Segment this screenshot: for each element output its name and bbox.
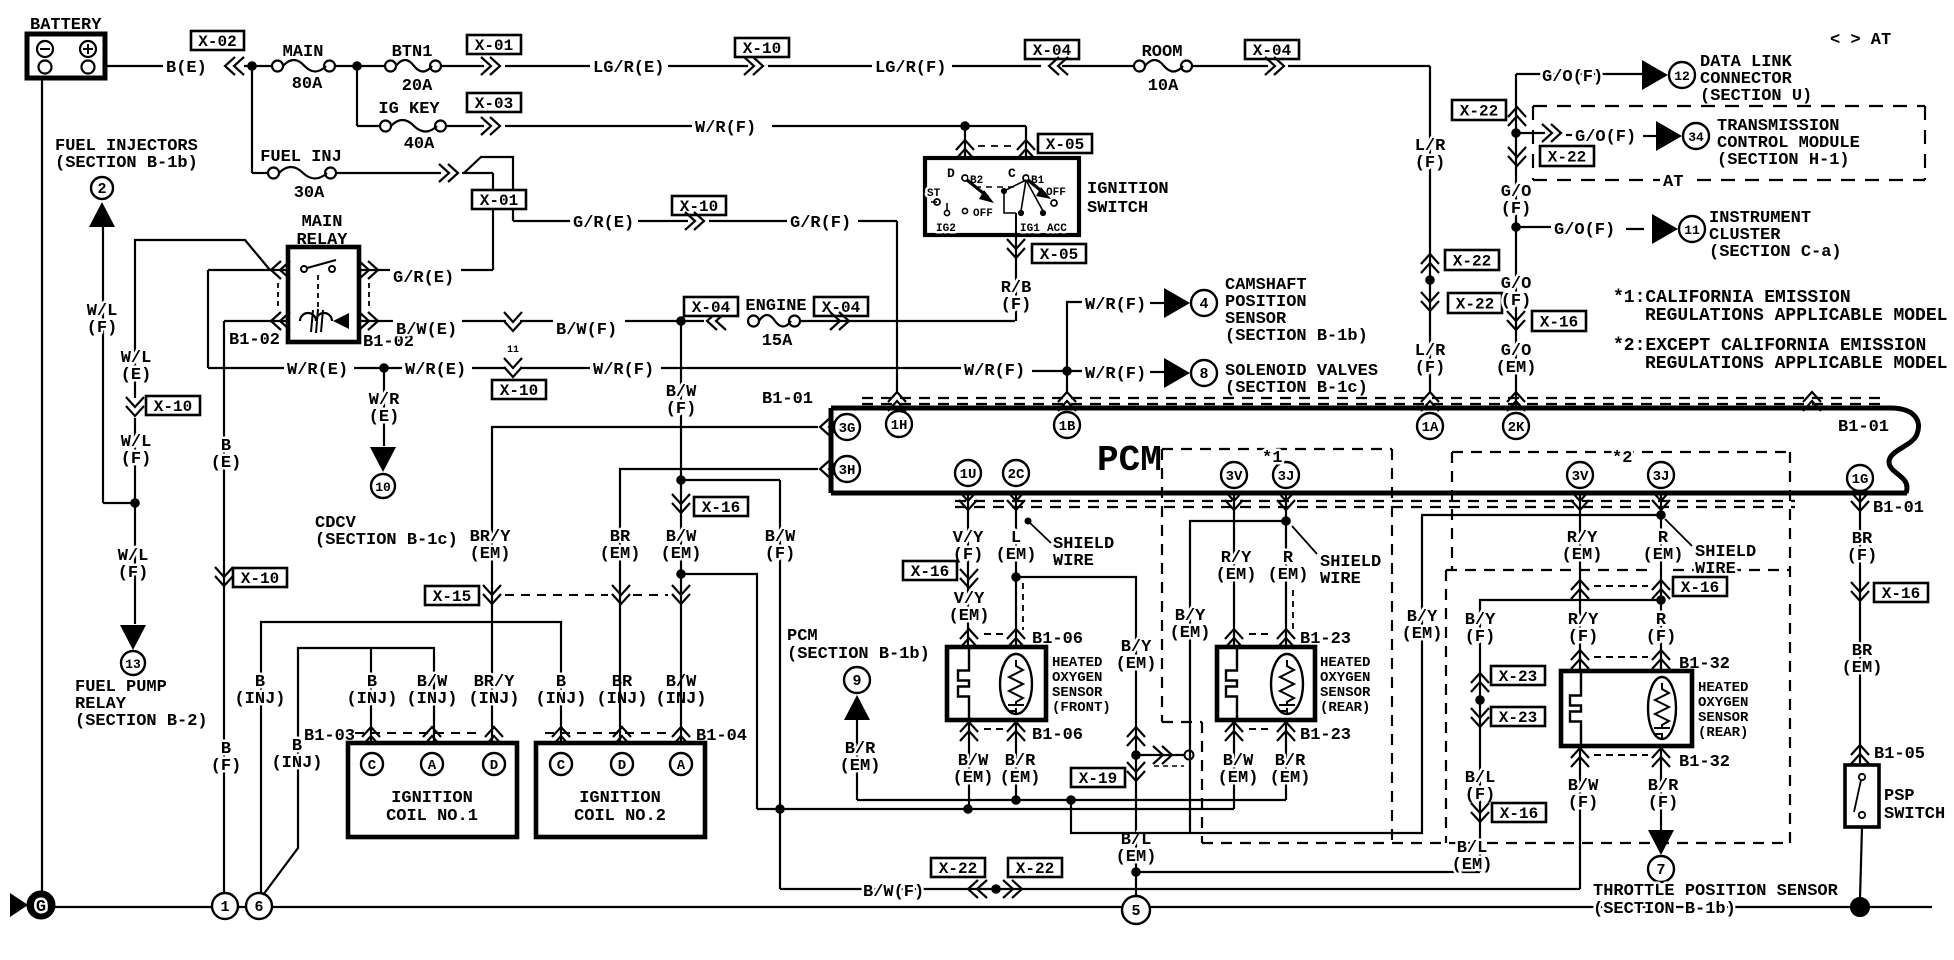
label IGNITION SWITCH — [1087, 180, 1169, 218]
arrow to 4 — [1164, 288, 1190, 318]
svg-text:MAIN: MAIN — [283, 43, 324, 62]
wire W/R(F) long — [661, 367, 961, 369]
wire W/L to relay — [135, 240, 270, 398]
label G/O (EM) — [1496, 342, 1537, 378]
label W/L (F) upper — [87, 302, 118, 338]
svg-text:(F): (F) — [1847, 547, 1878, 566]
svg-text:ENGINE: ENGINE — [745, 297, 806, 316]
svg-text:IGNITION: IGNITION — [1087, 180, 1169, 199]
svg-text:(E): (E) — [369, 408, 400, 427]
svg-text:(F): (F) — [1648, 794, 1679, 813]
svg-text:BTN1: BTN1 — [392, 43, 433, 62]
svg-text:X-10: X-10 — [154, 398, 192, 416]
b1-03 connector — [304, 727, 503, 746]
svg-text:B1-02: B1-02 — [229, 331, 280, 350]
svg-text:1H: 1H — [891, 418, 908, 434]
connector chevron X-04 left — [1049, 57, 1068, 75]
svg-text:SWITCH: SWITCH — [1087, 199, 1148, 218]
x-23 lower — [1471, 707, 1545, 727]
coil1 pin A — [421, 753, 443, 775]
label G/R(F) — [790, 214, 851, 233]
svg-text:G/R(F): G/R(F) — [790, 214, 851, 233]
wire B/W EM — [680, 321, 682, 750]
svg-text:(SECTION H-1): (SECTION H-1) — [1717, 151, 1850, 170]
connector 2C — [1003, 460, 1029, 486]
svg-text:REGULATIONS APPLICABLE MODEL: REGULATIONS APPLICABLE MODEL — [1645, 354, 1947, 374]
svg-text:COIL NO.2: COIL NO.2 — [574, 807, 666, 826]
svg-text:OXYGEN: OXYGEN — [1698, 695, 1748, 711]
chevron 3J a — [1277, 491, 1295, 510]
arrow to 34 — [1643, 121, 1682, 151]
svg-text:X-01: X-01 — [475, 37, 513, 55]
svg-text:(EM): (EM) — [949, 607, 990, 626]
label INSTRUMENT CLUSTER — [1709, 209, 1842, 262]
svg-text:X-22: X-22 — [1460, 103, 1498, 121]
wire junction down to ignition D — [964, 126, 966, 160]
label G/O(F) dlc — [1542, 68, 1603, 87]
svg-text:(EM): (EM) — [1270, 769, 1311, 788]
svg-text:(INJ): (INJ) — [271, 754, 322, 773]
svg-text:5: 5 — [1131, 903, 1140, 920]
label R (EM) b — [1643, 529, 1684, 565]
connector 3J a — [1273, 462, 1299, 488]
svg-text:X-10: X-10 — [743, 40, 781, 58]
svg-text:3J: 3J — [1278, 469, 1295, 485]
wire to ROOM fuse — [1062, 65, 1134, 67]
svg-text:9: 9 — [852, 673, 861, 690]
svg-text:(INJ): (INJ) — [468, 690, 519, 709]
ignition coil 2 box — [536, 743, 705, 837]
svg-text:C: C — [1008, 166, 1016, 181]
svg-text:ACC: ACC — [1047, 223, 1067, 235]
x-04 box left — [1025, 40, 1079, 60]
node 11 cluster — [1679, 216, 1705, 242]
label L/R (F) lower — [1415, 342, 1446, 378]
wire to L/R corner — [1288, 65, 1430, 67]
chevron LR down — [1421, 292, 1439, 311]
connector chevron X-10 W/L — [126, 397, 144, 416]
svg-text:6: 6 — [254, 899, 263, 916]
label B (INJ) c1 — [346, 673, 397, 709]
label G/R(E) relay — [393, 269, 454, 288]
x-05 box top — [1038, 134, 1092, 154]
svg-text:IGNITION: IGNITION — [579, 789, 661, 808]
label W/L (E) — [121, 349, 152, 385]
connector 1U — [955, 460, 981, 486]
wire W/R down to PCM 1B — [1066, 371, 1068, 394]
svg-text:(EM): (EM) — [1643, 546, 1684, 565]
label SOLENOID VALVES — [1225, 362, 1378, 398]
label B/Y (EM) x19 — [1116, 638, 1157, 674]
chevron 1G — [1851, 492, 1869, 511]
svg-text:(EM): (EM) — [600, 545, 641, 564]
svg-text:B1-01: B1-01 — [1873, 499, 1924, 518]
svg-text:1U: 1U — [960, 467, 977, 483]
wire G/R(E) run — [513, 220, 570, 222]
svg-text:SENSOR: SENSOR — [1320, 685, 1371, 701]
svg-text:B1-01: B1-01 — [762, 390, 813, 409]
connector chevron X-02 — [225, 57, 244, 75]
svg-text:X-05: X-05 — [1046, 136, 1084, 154]
PCM box — [831, 408, 1919, 493]
label BR (EM) — [600, 528, 641, 564]
svg-text:W/R(F): W/R(F) — [1085, 296, 1146, 315]
connector chevron into PCM 1H — [888, 392, 906, 411]
label LG/R(F) — [875, 59, 946, 78]
wire to X-10 — [638, 220, 688, 222]
label W/R(E) 2 — [405, 361, 466, 380]
wire shield a — [1190, 517, 1290, 833]
wire R/Y EM b — [1579, 493, 1581, 671]
fuse MAIN 80A — [272, 43, 335, 94]
label B (INJ) mid — [271, 737, 322, 773]
x-02 box — [191, 31, 244, 51]
label B (INJ) left — [234, 673, 285, 709]
wire W/R branch up — [1067, 302, 1082, 371]
wire BW to BWF riser — [681, 574, 757, 809]
node 34 TCM — [1683, 123, 1709, 149]
svg-text:(F): (F) — [1415, 154, 1446, 173]
svg-text:X-05: X-05 — [1040, 246, 1078, 264]
PCM dashed top — [862, 398, 1888, 404]
connector chevron X-10 — [744, 57, 763, 75]
x-15 connector — [425, 585, 690, 606]
label B/Y (EM) a — [1170, 607, 1211, 643]
svg-text:(EM): (EM) — [1562, 546, 1603, 565]
svg-text:(SECTION B-1b): (SECTION B-1b) — [1225, 327, 1368, 346]
svg-text:THROTTLE POSITION SENSOR: THROTTLE POSITION SENSOR — [1593, 882, 1839, 901]
svg-text:4: 4 — [1199, 296, 1208, 313]
wire B/Y EM staircase — [1071, 515, 1661, 833]
svg-text:ROOM: ROOM — [1142, 43, 1183, 62]
junction LR — [1426, 276, 1435, 285]
svg-text:B1-01: B1-01 — [1838, 418, 1889, 437]
chevron 3V a — [1225, 491, 1243, 510]
svg-text:3G: 3G — [839, 421, 856, 437]
label TRANSMISSION CONTROL MODULE — [1717, 117, 1860, 170]
svg-text:IGNITION: IGNITION — [391, 789, 473, 808]
svg-text:OXYGEN: OXYGEN — [1320, 670, 1370, 686]
svg-text:LG/R(E): LG/R(E) — [593, 59, 664, 78]
svg-text:C: C — [557, 758, 566, 774]
label B (E) — [211, 437, 242, 473]
svg-text:G/O(F): G/O(F) — [1542, 68, 1603, 87]
label BR/Y (EM) — [470, 528, 512, 564]
svg-text:40A: 40A — [404, 135, 435, 154]
connector 3V b — [1567, 462, 1593, 488]
svg-text:C: C — [368, 758, 377, 774]
wire W/R(E) mid — [354, 364, 402, 373]
relay coil — [300, 309, 349, 333]
b1-23 bottom — [1225, 722, 1351, 745]
label B/Y (F) — [1465, 611, 1496, 647]
label BR (EM) — [1842, 642, 1883, 678]
svg-text:(EM): (EM) — [1842, 659, 1883, 678]
wire B/W(E) — [377, 320, 506, 322]
connector 3V a — [1221, 462, 1247, 488]
wire G/R(E) to riser — [461, 269, 493, 271]
wire ROOM out — [1192, 65, 1268, 67]
label IGNITION COIL NO.1 — [386, 789, 478, 826]
wire BWF riser — [681, 480, 780, 889]
chevron X-22 left — [968, 880, 987, 898]
arrow to 7 — [1648, 830, 1674, 855]
arrow to 13 — [120, 625, 146, 650]
wire V/Y — [967, 493, 969, 647]
svg-text:15A: 15A — [762, 332, 793, 351]
coil2 pin C — [550, 753, 572, 775]
label G/O(F) ic — [1554, 221, 1615, 240]
PCM label — [1097, 440, 1162, 481]
svg-text:X-22: X-22 — [1548, 149, 1586, 167]
svg-text:(SECTION U): (SECTION U) — [1700, 87, 1812, 106]
svg-text:X-02: X-02 — [198, 33, 236, 51]
rear2 B/W wire — [1579, 746, 1581, 889]
coil1 pin D — [483, 753, 505, 775]
svg-text:34: 34 — [1688, 130, 1704, 145]
svg-text:*1: *1 — [1262, 449, 1282, 468]
svg-text:G/R(E): G/R(E) — [393, 269, 454, 288]
svg-text:(EM): (EM) — [996, 546, 1037, 565]
junction bottom — [992, 885, 1001, 894]
ignition internals — [927, 166, 1067, 235]
svg-text:HEATED: HEATED — [1052, 655, 1102, 671]
svg-text:X-16: X-16 — [702, 499, 740, 517]
svg-text:3V: 3V — [1572, 469, 1589, 485]
wire R EM a — [1286, 493, 1293, 647]
b1-32 bottom — [1571, 748, 1730, 772]
svg-text:D: D — [947, 166, 955, 181]
svg-text:G/R(E): G/R(E) — [573, 214, 634, 233]
label LG/R(E) — [593, 59, 664, 78]
x-22 box GO 1 — [1452, 100, 1506, 121]
svg-text:COIL NO.1: COIL NO.1 — [386, 807, 478, 826]
svg-text:A: A — [677, 758, 686, 774]
node 5 — [1122, 868, 1150, 924]
x-16 row b — [1571, 577, 1727, 599]
x-19 jumper — [1132, 746, 1194, 766]
svg-text:(F): (F) — [1501, 200, 1532, 219]
chevron 3J b — [1652, 491, 1670, 510]
node 2 fuel injectors — [91, 177, 113, 199]
dashed box inner — [1446, 570, 1790, 843]
ignition switch box — [925, 158, 1079, 235]
svg-text:IG1: IG1 — [1020, 223, 1040, 235]
svg-text:X-16: X-16 — [1540, 314, 1578, 332]
wire W/L lower — [134, 418, 136, 624]
x-19 box — [1071, 762, 1145, 788]
chevron 3V b — [1571, 491, 1589, 510]
rear2 sensor resistor — [1648, 677, 1676, 739]
connector 3G — [820, 414, 860, 440]
label B/W (EM) front — [953, 752, 994, 788]
x-04 box engine left — [684, 297, 738, 317]
x-22 box LR 2 — [1448, 293, 1502, 314]
label PCM section — [787, 627, 930, 664]
arrow to 10 — [370, 447, 396, 472]
svg-text:X-04: X-04 — [1253, 42, 1292, 60]
label B/R (EM) 9 — [840, 740, 881, 776]
chevron GO X16 — [1507, 311, 1525, 330]
svg-text:(SECTION B-1b): (SECTION B-1b) — [787, 645, 930, 664]
wire battery ground left — [41, 78, 43, 893]
label B/W (EM) — [661, 528, 702, 564]
wire BR F — [1859, 493, 1861, 765]
label FUEL INJECTORS — [55, 137, 198, 173]
node 4 camshaft sensor — [1191, 290, 1217, 316]
rear2 heater element — [1570, 671, 1581, 746]
svg-text:(FRONT): (FRONT) — [1052, 700, 1111, 716]
svg-text:1A: 1A — [1422, 420, 1439, 436]
svg-text:X-22: X-22 — [1016, 860, 1054, 878]
wire to X-10 — [668, 65, 748, 67]
front sensor resistor — [1000, 654, 1032, 715]
connector chevron B X-10 — [215, 567, 233, 586]
wire B(INJ) col1 — [261, 622, 561, 893]
wire front shield — [1012, 573, 1136, 898]
svg-text:B/W(E): B/W(E) — [396, 321, 457, 340]
label B/W(F) — [556, 321, 617, 340]
svg-text:W/R(E): W/R(E) — [405, 361, 466, 380]
chevron x19 upper — [1127, 727, 1145, 746]
wire corner down to ignition C — [1025, 126, 1027, 160]
svg-text:WIRE: WIRE — [1053, 552, 1094, 571]
svg-text:11: 11 — [1684, 223, 1700, 238]
svg-text:X-16: X-16 — [911, 563, 949, 581]
x-10 box W/R — [492, 380, 546, 400]
svg-text:(REAR): (REAR) — [1320, 700, 1370, 716]
wire relay switch stub — [208, 269, 272, 271]
svg-text:W/R(F): W/R(F) — [1085, 365, 1146, 384]
label PSP SWITCH — [1884, 787, 1945, 824]
svg-text:B1-05: B1-05 — [1874, 745, 1925, 764]
wire L EM — [1016, 493, 1023, 647]
arrow to 11 — [1626, 214, 1678, 244]
b1-06 bottom — [960, 722, 1083, 745]
wire R EM b — [1660, 493, 1662, 671]
svg-text:11: 11 — [507, 345, 519, 356]
svg-text:B1-32: B1-32 — [1679, 753, 1730, 772]
arrow to 2 — [89, 202, 115, 227]
label DATA LINK CONNECTOR — [1700, 53, 1812, 106]
connector chevron B/W X-10 — [504, 312, 522, 356]
wire LG/R(E) — [505, 65, 590, 67]
front HO2S box — [947, 647, 1046, 720]
svg-text:OXYGEN: OXYGEN — [1052, 670, 1102, 686]
label V/Y (EM) — [949, 590, 990, 626]
node 9 PCM — [844, 667, 870, 693]
rear HO2S box 2 — [1561, 671, 1692, 746]
svg-text:SENSOR: SENSOR — [1698, 710, 1749, 726]
x-10 box top — [735, 38, 789, 58]
svg-text:IG2: IG2 — [936, 223, 956, 235]
svg-text:X-22: X-22 — [1453, 253, 1491, 271]
svg-text:(F): (F) — [765, 545, 796, 564]
front sensor B/W wire — [968, 720, 970, 809]
wire stub arrow 4 — [1150, 302, 1166, 304]
svg-text:X-19: X-19 — [1079, 770, 1117, 788]
label R/Y (F) — [1568, 611, 1599, 647]
svg-text:PSP: PSP — [1884, 787, 1915, 806]
svg-text:(E): (E) — [211, 454, 242, 473]
x-01 box top — [467, 35, 521, 55]
label G/O (F) mid — [1501, 183, 1532, 219]
svg-text:ST: ST — [927, 188, 941, 200]
shield dot front — [1025, 518, 1051, 543]
connector chevron X-03 — [481, 117, 500, 135]
connector chevron into PCM 1B — [1058, 392, 1076, 411]
connector 3J b — [1648, 462, 1674, 488]
relay pins — [270, 270, 379, 321]
node 6 — [246, 893, 272, 919]
label BR (INJ) — [596, 673, 647, 709]
wire BTN1 out — [441, 65, 484, 67]
connector chevron B1-01 top — [1803, 392, 1821, 411]
label SHIELD WIRE front — [1053, 535, 1114, 571]
label R (F) — [1646, 611, 1677, 647]
label G/R(E) — [573, 214, 634, 233]
connector 1A — [1417, 413, 1443, 439]
wire relay G/R(E) — [379, 269, 390, 271]
svg-text:(EM): (EM) — [1402, 625, 1443, 644]
svg-text:(EM): (EM) — [1496, 359, 1537, 378]
label HEATED OXYGEN SENSOR (REAR) 2 — [1698, 680, 1749, 741]
svg-text:(EM): (EM) — [953, 769, 994, 788]
label CDCV — [315, 514, 458, 550]
wire to MAIN fuse — [244, 62, 272, 71]
svg-text:X-10: X-10 — [500, 382, 538, 400]
svg-text:LG/R(F): LG/R(F) — [875, 59, 946, 78]
svg-text:(SECTION C-a): (SECTION C-a) — [1709, 243, 1842, 262]
node 8 solenoid valves — [1191, 360, 1217, 386]
svg-text:(EM): (EM) — [1216, 566, 1257, 585]
label W/R(F) ignition feed — [695, 119, 756, 138]
label W/L (F) mid — [121, 433, 152, 469]
x-03 box — [467, 93, 521, 113]
connector chevron W/R X-10 — [504, 358, 522, 377]
rear1 B/R wire — [1285, 720, 1287, 800]
node 1 — [212, 893, 238, 919]
label B1-02 right — [363, 333, 414, 352]
svg-text:G/O(F): G/O(F) — [1554, 221, 1615, 240]
connector chevron X-16 BW — [672, 476, 690, 579]
svg-text:(F): (F) — [118, 564, 149, 583]
svg-text:(EM): (EM) — [470, 545, 511, 564]
wire to X-04 — [952, 65, 1041, 67]
rear HO2S box 1 — [1217, 647, 1315, 720]
svg-text:SWITCH: SWITCH — [1884, 805, 1945, 824]
ignition connector chevrons — [956, 140, 1035, 159]
wire B/R EM 9 — [856, 719, 858, 800]
wire W/L corner to junction — [103, 499, 139, 508]
label W/R(E) — [287, 361, 348, 380]
fuse BTN1 20A — [385, 43, 441, 96]
b1-05 connector — [1851, 745, 1925, 764]
svg-text:(F): (F) — [1568, 794, 1599, 813]
label BR/Y (INJ) — [468, 673, 519, 709]
svg-text:1G: 1G — [1852, 472, 1869, 488]
label IGNITION COIL NO.2 — [574, 789, 666, 826]
label B/R (F) b — [1648, 777, 1679, 813]
svg-text:X-16: X-16 — [1882, 585, 1920, 603]
wire G/O column — [1515, 74, 1517, 408]
label B/Y (EM) b — [1402, 608, 1443, 644]
svg-text:IG KEY: IG KEY — [378, 100, 440, 119]
svg-text:(EM): (EM) — [1170, 624, 1211, 643]
svg-text:X-15: X-15 — [433, 588, 471, 606]
node 13 fuel pump relay — [121, 651, 145, 675]
svg-text:(SECTION B-2): (SECTION B-2) — [75, 712, 208, 731]
